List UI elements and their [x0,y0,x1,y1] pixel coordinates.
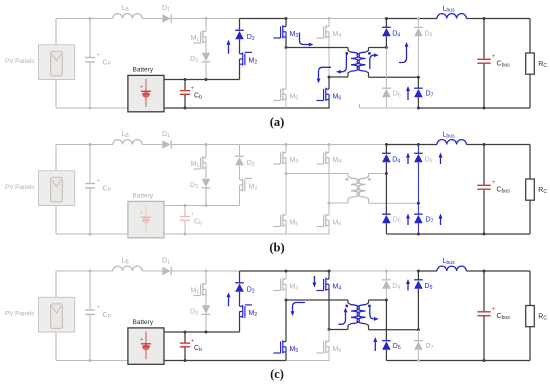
label: M2 (c) [249,310,258,318]
diode D2 (c) [235,283,244,292]
wire: D5 to N3 node (c) [417,289,419,330]
wire: M2 to battery rail (c) [239,317,241,332]
svg-text:M2: M2 [249,310,258,318]
wire: top rail M1-node to D2 leg (b) [206,144,240,146]
wire: bottom rail PV to battery (a) [56,107,128,109]
wire: top rail Lb to D1 (c) [142,270,162,272]
node: Cbus top junction (b) [483,143,486,146]
label: Cbus (b) [497,187,511,195]
capacitor CP (a) [85,53,100,62]
label: M3 (c) [290,283,299,291]
wire: M3 to N1 node (a) [285,37,287,48]
current arrow: up at D4 (b) [406,153,410,165]
diode D4 (b) [382,153,391,162]
wire: D7 leg upper (c) [417,330,419,341]
battery box (b) [128,201,164,237]
transformer T1 primary winding (a) [351,52,359,71]
svg-text:D3: D3 [190,309,198,317]
wire: N1 rail to primary top (c) [286,299,348,301]
node: N2 junction (a) [328,76,331,79]
svg-text:M1: M1 [191,161,200,169]
wire: M4 to N2 node (b) [328,163,330,203]
wire: Rc leg lower (c) [529,327,531,361]
node: N1 junction (b) [285,172,288,175]
current arrow: M3 to primary (a) [300,33,314,47]
svg-text:Lbus: Lbus [443,132,456,140]
label: D7 (b) [426,217,434,225]
label: M6 (c) [333,346,342,354]
diode D7 (c) [414,341,423,350]
svg-text:D6: D6 [393,91,401,99]
wire: M6 leg upper (c) [328,330,330,342]
svg-text:D4: D4 [392,157,400,165]
diode D1 (a) [162,14,171,22]
label: Cb (b) [194,218,202,226]
inductor Lbus (a) [437,14,466,19]
wire: D4 leg upper (c) [385,271,387,280]
transistor M4 (b) [317,151,330,164]
battery symbol (a) [140,79,151,107]
wire: N2 rail to primary bottom (c) [329,329,348,331]
wire: Rc leg upper (a) [529,19,531,54]
node: Cb top junction (a) [184,78,187,81]
wire: D6 leg upper (c) [385,300,387,341]
node: top rail leg2 junction (a) [328,17,331,20]
node: top rail D4 junction (c) [385,270,388,273]
svg-text:+: + [492,54,496,60]
wire: M6 to bottom rail (b) [328,226,330,235]
svg-text:M3: M3 [290,157,299,165]
wire: top rail M1-node to D2 leg (a) [206,18,240,20]
wire: M5 to bottom rail (c) [285,352,287,361]
wire: D5 leg upper (c) [417,271,419,280]
wire: bottom rail D7 leg to Rc (b) [418,233,530,235]
wire: top rail bridge leg1 to leg2 (c) [286,270,329,272]
transistor M5 (b) [274,214,287,227]
label: D4 (b) [392,157,400,165]
wire: M1 to D3 (b) [205,168,207,179]
wire: D4 to secondary top node (c) [385,289,387,300]
transistor M4 (a) [317,25,330,38]
wire: Cb upper lead (c) [184,332,186,342]
transformer T1 primary lead bottom (c) [348,324,351,330]
svg-text:+: + [97,179,101,185]
wire: Cp lower lead (b) [89,189,91,234]
svg-text:PV Panels: PV Panels [5,311,34,318]
label: D3 (c) [190,309,198,317]
svg-text:Lbus: Lbus [443,6,456,14]
diode D5 (b) [414,153,423,162]
label: M1 (b) [191,161,200,169]
label: M3 (a) [290,31,299,39]
wire: N1 rail to primary top (a) [286,47,348,49]
wire: D2 to M2 (a) [239,39,241,54]
svg-text:D2: D2 [247,34,255,42]
wire: D7 leg upper (b) [417,203,419,214]
transistor M5 (a) [274,88,287,101]
svg-text:D5: D5 [425,283,433,291]
diode D3 (a) [202,53,211,62]
svg-text:+: + [492,307,496,313]
current arrow: up through D4 (a) [399,42,408,63]
node: D7 bottom junction (b) [417,233,420,236]
node: Cbus bottom junction (b) [483,233,486,236]
label: M5 (b) [290,219,299,227]
wire: D6 to bottom rail (a) [385,97,387,108]
caption (a) (a) [270,115,285,129]
current arrow: down into M5 (c) [291,303,305,317]
svg-text:D3: D3 [190,56,198,64]
wire: Cbus lower lead (b) [483,190,485,234]
wire: M1 leg upper (a) [205,19,207,32]
wire: D5 to N3 node (b) [417,162,419,203]
label: Lbus (a) [443,6,456,14]
transistor M6 (a) [317,88,330,101]
wire: Cp upper lead (a) [89,19,91,57]
label: D5 (a) [425,31,433,39]
label: PV Panels (a) [5,58,34,65]
svg-text:M5: M5 [290,93,299,101]
label: D2 (c) [247,286,255,294]
svg-text:CP: CP [103,60,112,68]
label: CP (c) [103,312,112,320]
svg-text:D4: D4 [392,283,400,291]
wire: PV bottom lead (c) [55,332,57,361]
label: LB (a) [122,5,130,13]
wire: M4 leg upper (a) [328,19,330,27]
wire: D6 to bottom rail (b) [385,223,387,234]
wire: top rail D5 leg to Lbus (b) [418,144,437,146]
wire: D2 to M2 (c) [239,292,241,307]
diode D5 (a) [414,27,423,36]
transformer T1 secondary lead top (c) [366,300,369,305]
svg-text:D6: D6 [393,217,401,225]
wire: top rail D1 to M1 node (c) [171,270,206,272]
current arrow: down into M6 (a) [317,67,331,83]
wire: D3 to battery rail (a) [205,62,207,80]
node: Cb bottom junction (c) [184,359,187,362]
wire: bottom rail leg1 to M6 leg (c) [286,360,330,362]
label: CP (a) [103,60,112,68]
wire: top rail Lbus to Cbus (b) [466,144,484,146]
node: D7 bottom junction (a) [417,107,420,110]
wire: D5 leg upper (a) [417,19,419,28]
svg-text:M4: M4 [333,31,342,39]
transformer T1 primary winding (c) [351,305,359,324]
label: M3 (b) [290,157,299,165]
wire: D7 leg upper (a) [417,77,419,88]
current arrow: secondary winding down-right (c) [370,307,379,321]
battery symbol (b) [140,205,151,233]
wire: D2 leg upper (b) [239,145,241,157]
resistor RC (c) [526,306,535,327]
capacitor CP (c) [85,305,100,314]
battery box (c) [128,328,164,364]
svg-text:RC: RC [538,61,547,69]
wire: D5 to N3 node (a) [417,36,419,77]
svg-text:(c): (c) [270,367,284,381]
capacitor Cbus (b) [477,180,496,189]
svg-text:D1: D1 [162,5,170,13]
node: Cp bottom junction (b) [89,233,92,236]
wire: top rail Cbus to Rc (a) [484,18,530,20]
label: RC (a) [538,61,547,69]
diode D3 (b) [202,179,211,188]
svg-text:Cb: Cb [194,92,202,100]
svg-text:Cbus: Cbus [497,187,511,195]
wire: M5 to bottom rail (b) [285,226,287,235]
wire: top rail leg2 to D4 leg (a) [329,18,386,20]
node: top rail leg1 junction (a) [285,17,288,20]
node: Cp bottom junction (a) [89,107,92,110]
diode D1 (c) [162,267,171,275]
transformer T1 secondary winding (c) [357,305,365,324]
node: D3 junction on battery rail (c) [205,331,208,334]
svg-text:PV Panels: PV Panels [5,184,34,191]
svg-text:D5: D5 [425,31,433,39]
svg-text:Battery: Battery [133,319,154,326]
svg-text:D1: D1 [162,131,170,139]
label: Cbus (a) [497,61,511,69]
battery symbol (c) [140,332,151,360]
wire: bottom rail battery to leg1 (b) [164,233,286,235]
wire: PV bottom lead (a) [55,80,57,109]
transformer T1 secondary lead bottom (b) [366,197,369,203]
wire: M4 to N2 node (a) [328,37,330,77]
inductor Lbus (b) [437,140,466,145]
node: Cb top junction (c) [184,331,187,334]
wire: M3 to N1 node (c) [285,290,287,301]
label: M6 (a) [333,93,342,101]
node: top rail D4 junction (a) [385,17,388,20]
wire: D4 leg upper (a) [385,19,387,28]
svg-text:Battery: Battery [133,67,154,74]
label: D6 (a) [393,91,401,99]
wire: N2 rail to primary bottom (b) [329,202,348,204]
wire: D6 leg upper (a) [385,48,387,89]
node: top rail D4 junction (b) [385,143,388,146]
wire: PV top lead (b) [55,145,57,171]
transformer T1 polarity dot secondary (a) [368,52,371,55]
PV Panels box (a) [39,45,75,80]
label: D3 (b) [190,182,198,190]
wire: battery positive rail (a) [164,79,240,81]
transformer T1 primary lead top (b) [348,174,351,179]
label: PV Panels (b) [5,184,34,191]
capacitor Cb (b) [180,212,195,220]
PV Panels box (c) [39,297,75,332]
node: D3 junction on battery rail (b) [205,204,208,207]
wire: M6 leg upper (b) [328,203,330,215]
svg-text:M6: M6 [333,93,342,101]
node: Cb bottom junction (a) [184,107,187,110]
label: M1 (a) [191,35,200,43]
label: CP (b) [103,186,112,194]
wire: bottom rail battery to leg1 (c) [164,360,286,362]
wire: top rail PV to Lb (a) [56,18,113,20]
transformer T1 primary lead top (c) [348,300,351,305]
label: D6 (b) [393,217,401,225]
svg-text:D2: D2 [247,286,255,294]
inductor Lbus (c) [437,266,466,271]
wire: bottom rail D6 leg to D7 leg (c) [386,360,418,362]
node: top rail leg2 junction (c) [328,270,331,273]
wire: N3 rail secondary bottom (c) [369,329,419,331]
label: Cbus (c) [497,313,511,321]
svg-text:CP: CP [103,186,112,194]
wire: bottom rail leg1 to M6 leg (b) [286,233,330,235]
wire: Cb lower lead (b) [184,221,186,234]
node: N2 junction (c) [328,328,331,331]
inductor LB (a) [113,14,142,19]
diode D4 (c) [382,280,391,289]
svg-text:+: + [191,86,195,92]
svg-text:(a): (a) [270,115,285,129]
label: D3 (a) [190,56,198,64]
svg-text:RC: RC [538,187,547,195]
transformer T1 secondary winding (b) [357,178,365,197]
transistor M6 (b) [317,214,330,227]
diode D6 (b) [382,214,391,223]
label: RC (c) [538,314,547,322]
wire: Rc leg upper (b) [529,145,531,180]
label: M4 (a) [333,31,342,39]
caption (b) (b) [269,241,284,255]
diode D5 (c) [414,280,423,289]
wire: M1 to D3 (c) [205,295,207,306]
current arrow: up through D5 (c) [406,279,410,291]
wire: bottom rail leg1 to M6 leg (a) [286,107,330,109]
svg-text:D7: D7 [426,343,434,351]
capacitor CP (b) [85,179,100,188]
svg-text:+: + [97,53,101,59]
wire: Cbus upper lead (a) [483,19,485,59]
wire: D7 to bottom rail (a) [417,97,419,108]
node: D3 junction on battery rail (a) [205,78,208,81]
wire: Cb lower lead (c) [184,348,186,361]
transistor M2 (c) [240,305,253,318]
wire: bottom rail battery to leg1 (a) [164,107,286,109]
current arrow: primary winding up (c) [339,308,348,325]
transistor M5 (c) [274,340,287,353]
node: Cp top junction (b) [89,143,92,146]
svg-text:Cb: Cb [194,218,202,226]
node: top rail leg2 junction (b) [328,143,331,146]
label: D6 (c) [393,343,401,351]
wire: top rail Lb to D1 (b) [142,144,162,146]
transformer T1 polarity dot secondary (b) [368,178,371,181]
svg-text:Lbus: Lbus [443,258,456,266]
wire: M3 leg upper (b) [285,145,287,153]
transformer T1 primary winding (b) [351,178,359,197]
node: Cb top junction (b) [184,204,187,207]
wire: secondary top rail (c) [369,299,387,301]
wire: M1 to D3 (a) [205,42,207,53]
svg-text:M2: M2 [249,57,258,65]
battery box (a) [128,75,164,111]
wire: Rc leg lower (a) [529,74,531,108]
label: D5 (b) [425,157,433,165]
wire: top rail M1-node to D2 leg (c) [206,270,240,272]
label: M2 (a) [249,57,258,65]
label: LB (c) [122,257,130,265]
node: Cbus bottom junction (a) [483,107,486,110]
wire: M2 to battery rail (b) [239,190,241,205]
transistor M1 (c) [194,283,207,296]
PV Panels box (b) [39,171,75,206]
transformer T1 polarity dot primary (b) [345,178,348,181]
wire: M4 leg upper (b) [328,145,330,153]
wire: Cb lower lead (a) [184,95,186,108]
svg-text:D2: D2 [247,160,255,168]
label: D4 (c) [392,283,400,291]
node: top rail D5 junction (b) [417,143,420,146]
transformer T1 secondary winding (a) [357,52,365,71]
svg-text:D7: D7 [426,91,434,99]
label: D7 (a) [426,91,434,99]
node: Cb bottom junction (b) [184,233,187,236]
capacitor Cb (c) [180,339,195,347]
wire: Rc leg upper (c) [529,271,531,306]
wire: top rail D1 to M1 node (b) [171,144,206,146]
diode D1 (b) [162,140,171,148]
label: Battery (b) [133,193,154,200]
diode D3 (c) [202,305,211,314]
transformer T1 polarity dot secondary (c) [368,305,371,308]
label: RC (b) [538,187,547,195]
transformer T1 primary lead top (a) [348,48,351,53]
wire: M6 leg upper (a) [328,77,330,89]
node: N1 junction (c) [285,299,288,302]
svg-text:M5: M5 [290,219,299,227]
label: D1 (b) [162,131,170,139]
svg-text:Cb: Cb [194,345,202,353]
diode D2 (b) [235,156,244,165]
svg-text:+: + [492,180,496,186]
wire: top rail D4 leg to D5 leg (b) [386,144,418,146]
label: LB (b) [122,131,130,139]
current arrow: up through D7 (a) [406,86,410,100]
wire: N1 rail to primary top (b) [286,173,348,175]
wire: secondary top rail (a) [369,47,387,49]
svg-text:+: + [191,212,195,218]
transformer T1 primary lead bottom (b) [348,197,351,203]
wire: D4 leg upper (b) [385,145,387,154]
wire: M2 to battery rail (a) [239,64,241,79]
node: M1 branch junction (a) [205,17,208,20]
transistor M2 (a) [240,52,253,65]
label: Battery (a) [133,67,154,74]
wire: bottom rail D7 leg to Rc (c) [418,360,530,362]
node: M1 branch junction (b) [205,143,208,146]
wire: Cbus lower lead (c) [483,316,485,360]
wire: top rail Lbus to Cbus (a) [466,18,484,20]
wire: battery positive rail (c) [164,331,240,333]
label: Lbus (b) [443,132,456,140]
wire: top rail D4 leg to D5 leg (a) [386,18,418,20]
wire: D2 leg upper (a) [239,19,241,31]
transistor M3 (b) [274,151,287,164]
svg-text:D5: D5 [425,157,433,165]
node: N2 junction (b) [328,202,331,205]
wire: M1 leg upper (c) [205,271,207,284]
wire: bottom rail D7 leg to Rc (a) [418,107,530,109]
node: D7 bottom junction (c) [417,359,420,362]
inductor LB (c) [113,266,142,271]
label: Cb (c) [194,345,202,353]
wire: top rail D5 leg to Lbus (a) [418,18,437,20]
current arrow: down into M4 (c) [312,276,316,288]
